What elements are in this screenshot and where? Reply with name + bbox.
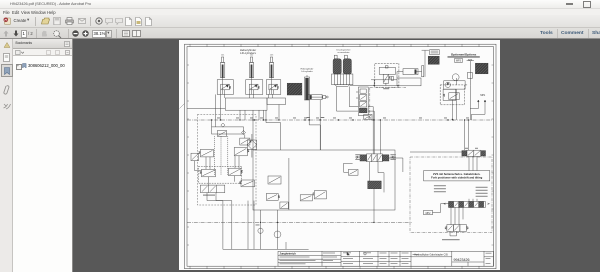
wire: subplate drops — [240, 104, 279, 120]
wire: option valve drops — [469, 156, 477, 170]
check box small — [343, 163, 357, 175]
right: Tools / Comment / Share — [540, 31, 553, 36]
globe/AI icon — [95, 17, 103, 25]
folder open icon — [41, 17, 50, 25]
valve V9 — [239, 180, 254, 187]
svg-text:MP2: MP2 — [425, 212, 430, 214]
subplate manifold 1 — [225, 98, 267, 110]
save icon (disabled) — [53, 17, 61, 25]
valve block V3 — [266, 77, 281, 94]
inner dashed box — [198, 166, 241, 183]
valve cluster dashed enclosure — [197, 114, 256, 205]
dashed enclosure C — [374, 63, 398, 87]
main dash-dot boundary line — [187, 119, 494, 121]
valve block V1 — [217, 77, 233, 94]
svg-text:1Z1: 1Z1 — [220, 54, 224, 56]
zoom out — [72, 30, 79, 37]
valve D1 — [199, 169, 215, 177]
tank block D (hatched) — [428, 56, 439, 64]
valve C1 — [191, 153, 199, 161]
centering mark left edge — [179, 103, 184, 108]
wire: relief supply line — [371, 79, 397, 85]
inner block divider — [287, 158, 289, 210]
cylinder Z4 vertical — [304, 75, 309, 100]
down arrow — [13, 30, 19, 37]
valve V11 — [312, 190, 326, 198]
ZVS valve bank hatched — [443, 201, 489, 207]
wires cluster — [194, 134, 251, 201]
lower dash-dot boundary — [187, 221, 412, 223]
wire: subplate to block drops — [253, 110, 321, 150]
up arrow (disabled) — [3, 30, 9, 37]
wire: lower valve tails — [450, 231, 457, 236]
pump P1 — [443, 80, 466, 88]
valve V12 — [279, 202, 287, 209]
svg-text:Lift-cylinders: Lift-cylinders — [240, 51, 256, 55]
svg-text:Lift-cylinder: Lift-cylinder — [301, 70, 312, 73]
suction line — [222, 200, 308, 249]
motor M1 — [452, 73, 459, 80]
lowering valve A1 — [217, 130, 226, 136]
wire: supply header to options — [350, 84, 397, 86]
pilot dashed lines — [214, 136, 227, 175]
accumulator SP1 — [333, 55, 341, 74]
svg-text:MP3: MP3 — [456, 59, 462, 62]
cylinder Z5 horizontal — [307, 94, 327, 99]
lowering wire loop — [210, 119, 243, 134]
lower valve bank — [200, 185, 224, 196]
svg-text:99423426: 99423426 — [453, 258, 469, 262]
valve V10 — [266, 193, 280, 200]
dashed enclosure F — [440, 84, 464, 104]
marquee zoom tool — [53, 30, 62, 38]
tiny port labels above boundary — [217, 116, 469, 119]
power unit dash-dot boundary — [369, 87, 405, 120]
wire: cluster to suction — [207, 200, 232, 249]
wire: left supply to subplate — [187, 107, 225, 109]
svg-text:Jungheinrich: Jungheinrich — [279, 251, 296, 255]
relief valve in C — [379, 65, 395, 85]
row 2 — [0, 27, 600, 28]
filter F2 — [247, 140, 256, 150]
title block — [278, 251, 494, 266]
cylinder 1Z2 — [249, 54, 254, 77]
drawing frame outer — [184, 44, 496, 269]
heading lift cylinders group — [239, 48, 256, 55]
document icons — [125, 17, 132, 26]
valve block V2 — [245, 77, 262, 94]
svg-text:Optionen/Options: Optionen/Options — [450, 52, 476, 56]
small label at pump — [255, 223, 259, 226]
wires main valve drops — [369, 161, 384, 192]
wire: option valve feeds — [464, 120, 468, 150]
ZVS dashed option box — [410, 157, 492, 232]
check diamond 2 — [241, 130, 245, 134]
valve V14 — [300, 194, 312, 200]
MP3 box — [454, 58, 461, 62]
subplate manifold 2 — [267, 98, 286, 105]
accumulator SP2 — [343, 55, 351, 74]
tank block T1 (hatched) — [287, 83, 302, 95]
valve B1 — [239, 138, 251, 145]
wire: bank connections — [432, 198, 477, 224]
junction dots on boundary — [219, 119, 453, 120]
check valve ball K2 — [274, 210, 281, 249]
check valve ball K1 — [257, 210, 262, 249]
upper option valve W2 — [410, 147, 486, 156]
wire: tilt cylinder drops — [309, 99, 320, 149]
printer icon — [65, 17, 74, 25]
valve C2 — [198, 149, 213, 157]
comment bubble icon — [105, 18, 113, 25]
svg-text:ZVS mit Seitenschub u. Gabelzi: ZVS mit Seitenschub u. Gabelzinken- — [433, 172, 480, 176]
directional valve in F — [443, 89, 459, 100]
svg-text:Fork positioner with sideshift: Fork positioner with sideshift and tilti… — [431, 175, 482, 179]
callout labels left — [433, 185, 445, 192]
PDF page — [179, 40, 501, 271]
main directional valve W1 — [355, 153, 396, 161]
proportional valve stack — [356, 87, 368, 116]
note box ZVS — [423, 170, 489, 180]
svg-text:Hydraulikplan Gabelstapler C/B: Hydraulikplan Gabelstapler C/B — [414, 253, 448, 256]
heading small lift cylinder — [300, 67, 313, 73]
wire: stack elbows to lower valves — [368, 106, 380, 153]
valve V13 — [268, 176, 281, 184]
envelope icon — [78, 18, 86, 24]
filter housing — [331, 74, 352, 87]
row 1 — [3, 17, 11, 25]
lower ZVS valve W3 — [444, 224, 468, 231]
callout labels right — [475, 186, 487, 196]
small port box MP2 — [423, 210, 432, 215]
main block rectangle — [253, 150, 395, 210]
hand pump — [466, 60, 473, 85]
accumulator label — [336, 48, 350, 54]
hand tool (disabled) — [41, 30, 48, 37]
valve C3 — [234, 147, 249, 155]
valve D2 — [228, 168, 242, 176]
wire: valve drops — [215, 94, 272, 125]
label box D — [429, 49, 439, 54]
svg-text:1Z3: 1Z3 — [269, 54, 273, 56]
cylinder 1Z1 — [220, 54, 225, 77]
tilt cylinder small — [397, 50, 429, 86]
svg-text:accumulator: accumulator — [337, 51, 349, 54]
drawing frame inner — [187, 46, 494, 266]
heading options — [447, 52, 479, 57]
small valve on boundary — [363, 114, 371, 119]
svg-text:Hebezylinder: Hebezylinder — [300, 67, 313, 70]
svg-text:MP1: MP1 — [480, 93, 486, 96]
wire: filter feed lines — [336, 86, 358, 111]
wire: options drops — [452, 78, 470, 120]
hatched valve small — [367, 181, 381, 222]
tank block E (hatched) — [475, 63, 488, 74]
frame zone ticks top/bottom — [187, 44, 494, 269]
check diamond 1 — [220, 123, 224, 127]
label under lower valve — [442, 239, 460, 240]
zoom in — [82, 30, 89, 37]
cylinder 1Z3 — [269, 54, 274, 77]
